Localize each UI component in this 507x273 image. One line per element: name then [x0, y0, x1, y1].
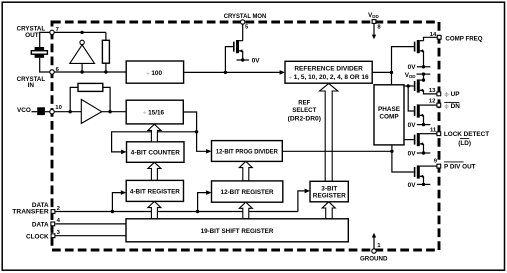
node prog divider out — [390, 150, 393, 153]
REF SELECT bus arrow — [320, 84, 338, 182]
wire branch into 3-bit register — [298, 191, 305, 212]
pin 8 square — [372, 20, 376, 24]
IC boundary dashed border — [52, 22, 439, 250]
svg-text:TRANSFER: TRANSFER — [12, 208, 49, 215]
4-BIT COUNTER box — [127, 142, 185, 163]
node Q4 gate branch — [407, 84, 410, 87]
resistor R1 — [102, 32, 109, 72]
hollow arrow counter to div15/16 — [148, 124, 161, 142]
hollow arrow 12-bit register to prog divider — [239, 161, 252, 181]
node junction resistor bottom — [104, 70, 107, 73]
svg-text:LOCK DETECT: LOCK DETECT — [444, 131, 489, 138]
GROUND pin 1 arrow — [372, 233, 376, 249]
svg-text:÷ 100: ÷ 100 — [146, 70, 162, 77]
label DATA TRANSFER — [12, 202, 49, 215]
arrowhead into 12-bit prog divider — [206, 149, 211, 154]
label CRYSTAL OUT — [17, 26, 46, 39]
amp feedback resistor R2 — [70, 83, 110, 111]
node ref divider out — [390, 71, 393, 74]
inverter U1 — [70, 40, 95, 72]
svg-text:DATA: DATA — [32, 221, 49, 228]
hollow arrow shift register to 12-bit register — [239, 202, 252, 219]
wire branch into 12-bit register — [198, 193, 207, 212]
svg-text:10: 10 — [55, 105, 62, 111]
wire branch into 4-bit register — [112, 193, 121, 212]
svg-text:13: 13 — [429, 88, 436, 94]
12-BIT PROG DIVIDER box — [212, 141, 283, 162]
svg-text:0V: 0V — [408, 122, 417, 129]
svg-text:ϕ DN: ϕ DN — [444, 103, 460, 110]
label REF SELECT (DR2-DR0) — [288, 100, 321, 123]
svg-text:0V: 0V — [252, 57, 261, 64]
pin 5 circle — [241, 20, 245, 24]
hollow arrow shift register to 3-bit register — [322, 202, 335, 219]
pin 13 square — [437, 92, 441, 96]
svg-text:12-BIT PROG DIVIDER: 12-BIT PROG DIVIDER — [216, 149, 278, 156]
label 3-bit register — [313, 186, 346, 200]
comp freq transistor Q2 — [392, 37, 438, 72]
arrowhead into 3-bit register — [305, 189, 310, 194]
svg-text:4-BIT COUNTER: 4-BIT COUNTER — [131, 150, 180, 157]
svg-text:÷ 15/16: ÷ 15/16 — [143, 110, 164, 117]
19-BIT SHIFT REGISTER box — [126, 219, 348, 242]
svg-text:0V: 0V — [408, 64, 417, 71]
svg-text:SELECT: SELECT — [292, 107, 316, 114]
amplifier U2 — [81, 99, 101, 123]
svg-text:0V: 0V — [408, 182, 417, 189]
pin 7 circle — [50, 30, 54, 34]
4-BIT REGISTER box — [126, 180, 183, 201]
svg-text:4-BIT REGISTER: 4-BIT REGISTER — [130, 189, 180, 196]
wire div100 out to reference divider — [184, 71, 281, 73]
wire ref divider out — [372, 71, 391, 73]
svg-text:11: 11 — [430, 127, 437, 133]
svg-text:12: 12 — [429, 99, 436, 105]
svg-text:VCO: VCO — [17, 107, 31, 114]
label phase comp — [378, 106, 401, 121]
wire crystal to pin6 line — [40, 58, 127, 72]
node feedback right — [108, 110, 111, 113]
label CRYSTAL IN — [17, 76, 46, 89]
12-BIT REGISTER box — [212, 181, 283, 202]
label phi DN with overline — [444, 102, 460, 110]
pin 1 circle — [372, 249, 376, 253]
svg-text:GROUND: GROUND — [360, 255, 388, 262]
arrowhead into reference divider — [280, 70, 285, 75]
node div15/16 branch — [195, 130, 198, 133]
DATA TRANSFER wire — [55, 211, 298, 213]
node junction inverter bottom — [80, 70, 83, 73]
svg-text:0V: 0V — [408, 150, 417, 157]
divider 100 box — [126, 61, 183, 83]
wire div15/16 out down to prog divider — [183, 112, 206, 151]
wire prog divider out to phase comp — [282, 150, 392, 152]
svg-text:19-BIT SHIFT REGISTER: 19-BIT SHIFT REGISTER — [201, 228, 274, 235]
p div out transistor Q6 — [392, 151, 437, 186]
CLOCK wire — [55, 235, 126, 237]
VDD pin 8 arrow into chip — [372, 24, 376, 39]
svg-text:PHASE: PHASE — [378, 106, 401, 113]
pin 12 square — [437, 103, 441, 107]
label reference divider — [289, 65, 369, 81]
svg-text:14: 14 — [430, 32, 437, 38]
pin 11 square — [437, 132, 441, 136]
pin 3 square — [51, 234, 55, 238]
svg-text:REF: REF — [298, 100, 310, 107]
svg-text:COMP: COMP — [379, 113, 399, 120]
svg-text:÷ 1, 5, 10, 20, 2, 4, 8 OR 16: ÷ 1, 5, 10, 20, 2, 4, 8 OR 16 — [289, 74, 369, 81]
lock detect transistor Q5 — [404, 133, 437, 155]
pin 2 square — [51, 210, 55, 214]
3-BIT REGISTER box — [310, 181, 348, 202]
phi UP transistor Q3 — [404, 79, 437, 94]
pin 14 square — [437, 35, 441, 39]
VDD wire to Q3 drain — [417, 72, 431, 81]
pin 9 square — [437, 164, 441, 168]
crystal X1 — [31, 47, 47, 58]
arrowhead into 12-bit register — [206, 190, 211, 195]
svg-text:IN: IN — [28, 82, 35, 89]
svg-text:COMP FREQ: COMP FREQ — [445, 35, 482, 42]
svg-text:REGISTER: REGISTER — [313, 193, 346, 200]
svg-text:12-BIT REGISTER: 12-BIT REGISTER — [221, 189, 274, 196]
arrowhead into 4-bit counter — [121, 150, 126, 155]
node branch to 4-bit register — [111, 210, 114, 213]
DATA wire — [55, 223, 126, 225]
node crystal mon gate branch — [224, 71, 227, 74]
crystal mon transistor Q1 — [225, 24, 249, 73]
label P DIV OUT with overline — [444, 162, 476, 171]
REFERENCE DIVIDER box — [285, 61, 372, 83]
pin 6 circle — [50, 70, 54, 74]
label LOCK DETECT (LD) — [444, 131, 489, 147]
PHASE COMP box — [374, 85, 404, 145]
svg-text:CRYSTAL MON: CRYSTAL MON — [224, 13, 267, 20]
pin 10 circle — [50, 110, 54, 114]
svg-text:ϕ UP: ϕ UP — [444, 91, 460, 98]
node junction top of inverter — [80, 31, 83, 34]
divider 15/16 box — [126, 100, 183, 124]
wire to phase comp top — [391, 72, 393, 84]
svg-text:REFERENCE DIVIDER: REFERENCE DIVIDER — [294, 65, 363, 72]
wire pin10 to divider 15/16 — [52, 111, 126, 113]
pin 4 square — [51, 222, 55, 226]
svg-text:OUT: OUT — [25, 32, 39, 39]
hollow arrow shift register to 4-bit register — [148, 201, 161, 218]
node branch to 12-bit register — [196, 210, 199, 213]
svg-text:CLOCK: CLOCK — [26, 234, 49, 241]
wire pin7 to crystal and inverter top — [40, 32, 106, 47]
phi DN transistor Q4 — [408, 86, 437, 126]
wire to phase comp bottom — [391, 145, 393, 151]
VCO input coupling — [32, 107, 53, 115]
arrowhead into 4-bit register — [121, 190, 126, 195]
svg-text:(DR2-DR0): (DR2-DR0) — [288, 116, 321, 123]
node feedback left — [69, 110, 72, 113]
wire branch to 4-bit counter — [112, 132, 197, 152]
hollow arrow 4-bit register to counter — [148, 162, 161, 180]
svg-text:P DIV OUT: P DIV OUT — [444, 164, 476, 171]
svg-text:(LD): (LD) — [458, 140, 471, 147]
